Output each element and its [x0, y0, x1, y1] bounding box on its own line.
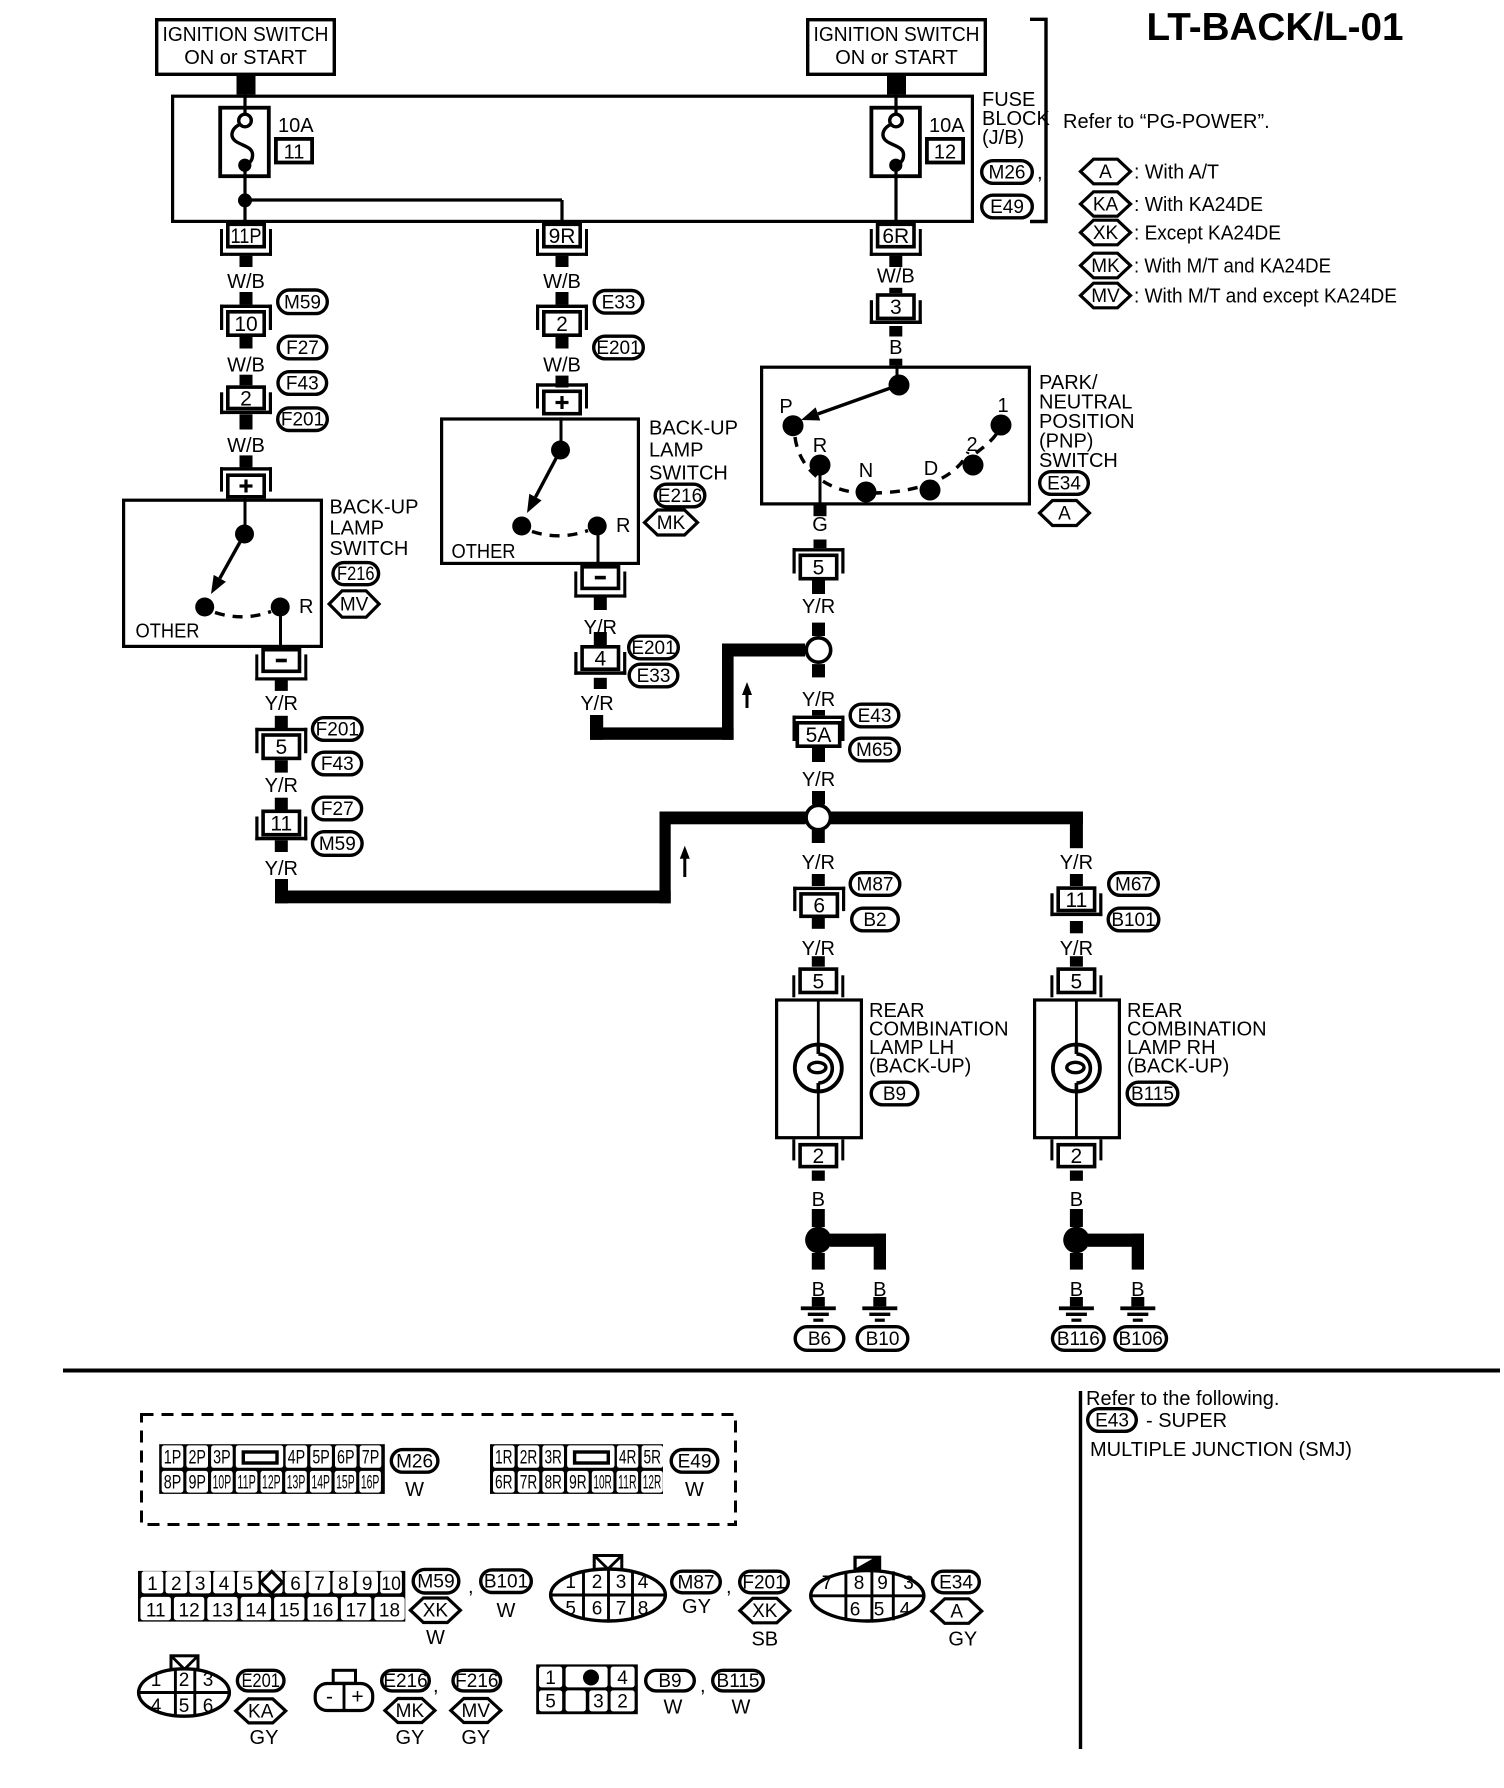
svg-text:E201: E201 — [631, 638, 675, 659]
svg-text:BACK-UP: BACK-UP — [330, 497, 419, 519]
svg-text:2P: 2P — [188, 1448, 206, 1469]
svg-text:M59: M59 — [319, 834, 356, 855]
svg-text:6P: 6P — [337, 1448, 355, 1469]
svg-text:11: 11 — [1065, 889, 1087, 912]
svg-text:B116: B116 — [1057, 1329, 1100, 1350]
svg-text:W/B: W/B — [227, 435, 265, 457]
svg-text:E216: E216 — [383, 1671, 427, 1692]
svg-text:SB: SB — [751, 1629, 778, 1651]
svg-text:E201: E201 — [241, 1671, 280, 1692]
svg-text:7: 7 — [822, 1573, 833, 1594]
svg-text:Y/R: Y/R — [802, 769, 835, 791]
svg-text:4: 4 — [617, 1668, 628, 1689]
svg-text:8: 8 — [854, 1573, 865, 1594]
svg-text:E49: E49 — [678, 1451, 712, 1472]
svg-text:F27: F27 — [286, 338, 319, 359]
svg-text:Refer to “PG-POWER”.: Refer to “PG-POWER”. — [1063, 111, 1270, 133]
svg-text:9P: 9P — [188, 1472, 206, 1493]
svg-text:14P: 14P — [311, 1472, 330, 1493]
svg-text:+: + — [351, 1686, 363, 1709]
svg-text:F43: F43 — [321, 754, 354, 775]
svg-text:E43: E43 — [1095, 1411, 1129, 1432]
svg-text:SWITCH: SWITCH — [1039, 450, 1118, 472]
svg-text:Y/R: Y/R — [265, 693, 298, 715]
svg-text:W: W — [497, 1600, 516, 1622]
svg-text:13: 13 — [212, 1600, 233, 1621]
svg-text:5: 5 — [275, 736, 287, 759]
svg-text:5: 5 — [1071, 970, 1083, 993]
svg-text:16: 16 — [312, 1600, 333, 1621]
svg-text:2: 2 — [179, 1670, 190, 1691]
svg-text:10A: 10A — [929, 115, 965, 137]
svg-text:4: 4 — [219, 1574, 230, 1595]
svg-text:4: 4 — [151, 1696, 162, 1717]
svg-text:5R: 5R — [644, 1448, 662, 1469]
svg-text:3: 3 — [616, 1572, 627, 1593]
svg-text:W: W — [426, 1627, 445, 1649]
svg-text:4: 4 — [900, 1599, 911, 1620]
svg-text:17: 17 — [346, 1600, 367, 1621]
svg-text:A: A — [1058, 504, 1071, 525]
svg-text:Y/R: Y/R — [802, 689, 835, 711]
svg-text:F216: F216 — [337, 564, 375, 585]
svg-text:E33: E33 — [637, 666, 671, 687]
svg-text:10R: 10R — [593, 1472, 612, 1493]
svg-text:B: B — [812, 1189, 825, 1211]
svg-text:MK: MK — [657, 513, 686, 534]
svg-text:3P: 3P — [213, 1448, 231, 1469]
svg-text:: With KA24DE: : With KA24DE — [1134, 194, 1263, 216]
svg-text:GY: GY — [250, 1727, 279, 1749]
svg-text:W/B: W/B — [543, 355, 581, 377]
svg-text:E43: E43 — [858, 706, 892, 727]
svg-text:11P: 11P — [237, 1472, 256, 1493]
svg-text:9R: 9R — [569, 1472, 587, 1493]
svg-text:B115: B115 — [1131, 1084, 1174, 1105]
svg-text:: With M/T and except KA24DE: : With M/T and except KA24DE — [1134, 286, 1397, 308]
svg-text:3: 3 — [903, 1573, 914, 1594]
svg-text:MULTIPLE JUNCTION (SMJ): MULTIPLE JUNCTION (SMJ) — [1090, 1439, 1352, 1461]
svg-text:7: 7 — [616, 1599, 627, 1620]
svg-text:11: 11 — [146, 1600, 166, 1621]
svg-text:,: , — [700, 1675, 706, 1697]
svg-text:G: G — [812, 514, 828, 536]
svg-text:6R: 6R — [882, 225, 909, 248]
svg-text:11: 11 — [284, 142, 305, 164]
svg-text:4: 4 — [594, 648, 606, 671]
svg-text:5: 5 — [545, 1692, 556, 1713]
svg-text:12R: 12R — [643, 1472, 662, 1493]
svg-text:3: 3 — [890, 296, 902, 319]
svg-text:10P: 10P — [213, 1472, 232, 1493]
svg-text:ON or START: ON or START — [835, 47, 958, 69]
svg-text:W: W — [685, 1479, 704, 1501]
svg-text:W: W — [732, 1697, 751, 1719]
svg-text:B101: B101 — [1111, 910, 1155, 931]
svg-text:1: 1 — [565, 1572, 576, 1593]
svg-text:P: P — [779, 396, 792, 418]
svg-text:B9: B9 — [883, 1084, 906, 1105]
svg-text:F216: F216 — [455, 1671, 498, 1692]
svg-text:M59: M59 — [284, 292, 321, 313]
svg-text:: With A/T: : With A/T — [1134, 162, 1219, 184]
svg-text:9R: 9R — [549, 225, 576, 248]
svg-text:9: 9 — [362, 1574, 373, 1595]
svg-text:R: R — [299, 596, 313, 618]
svg-text:18: 18 — [379, 1600, 400, 1621]
svg-text:15: 15 — [279, 1600, 300, 1621]
svg-text:5: 5 — [243, 1574, 254, 1595]
svg-text:1P: 1P — [164, 1448, 182, 1469]
svg-text:7P: 7P — [362, 1448, 380, 1469]
svg-text:15P: 15P — [336, 1472, 355, 1493]
svg-text:5: 5 — [813, 557, 825, 580]
svg-text:Y/R: Y/R — [265, 775, 298, 797]
svg-text:16P: 16P — [361, 1472, 380, 1493]
svg-text:A: A — [950, 1602, 963, 1623]
svg-text:W/B: W/B — [227, 355, 265, 377]
svg-text:2: 2 — [617, 1692, 628, 1713]
svg-text:,: , — [433, 1675, 439, 1697]
svg-text:7: 7 — [314, 1574, 325, 1595]
svg-text:10A: 10A — [278, 115, 314, 137]
svg-text:D: D — [924, 458, 938, 480]
svg-text:F201: F201 — [281, 410, 324, 431]
svg-text:Y/R: Y/R — [802, 596, 835, 618]
svg-text:Y/R: Y/R — [580, 693, 613, 715]
svg-text:,: , — [468, 1576, 474, 1598]
svg-text:5P: 5P — [312, 1448, 330, 1469]
svg-text:12P: 12P — [262, 1472, 281, 1493]
svg-text:6: 6 — [813, 895, 825, 918]
svg-text:B6: B6 — [808, 1329, 831, 1350]
svg-text:5: 5 — [874, 1599, 885, 1620]
svg-text:B106: B106 — [1119, 1329, 1163, 1350]
svg-text:ON or START: ON or START — [184, 47, 307, 69]
svg-text:F43: F43 — [286, 374, 319, 395]
svg-text:8: 8 — [638, 1599, 649, 1620]
svg-text:SWITCH: SWITCH — [649, 463, 728, 485]
svg-text:(BACK-UP): (BACK-UP) — [1127, 1056, 1229, 1078]
svg-text:SWITCH: SWITCH — [330, 538, 409, 560]
svg-text:3R: 3R — [544, 1448, 562, 1469]
svg-text:1: 1 — [151, 1670, 162, 1691]
svg-text:IGNITION SWITCH: IGNITION SWITCH — [814, 24, 980, 46]
svg-text:8P: 8P — [164, 1472, 182, 1493]
svg-text:W: W — [405, 1479, 424, 1501]
svg-text:: Except KA24DE: : Except KA24DE — [1134, 223, 1281, 245]
svg-text:2: 2 — [592, 1572, 603, 1593]
svg-text:2R: 2R — [520, 1448, 538, 1469]
svg-text:B9: B9 — [658, 1671, 681, 1692]
svg-text:2: 2 — [812, 1145, 824, 1168]
svg-text:XK: XK — [423, 1601, 449, 1622]
svg-text:4: 4 — [638, 1572, 649, 1593]
svg-text:2: 2 — [966, 434, 977, 456]
svg-text:4R: 4R — [619, 1448, 637, 1469]
svg-text:8R: 8R — [544, 1472, 562, 1493]
svg-text:GY: GY — [682, 1596, 711, 1618]
svg-text:B: B — [889, 337, 902, 359]
svg-text:3: 3 — [195, 1574, 206, 1595]
svg-text:W/B: W/B — [543, 271, 581, 293]
svg-text:5: 5 — [812, 970, 824, 993]
svg-text:GY: GY — [395, 1727, 424, 1749]
svg-text:B101: B101 — [484, 1572, 528, 1593]
svg-text:N: N — [859, 460, 873, 482]
svg-text:1R: 1R — [495, 1448, 513, 1469]
svg-text:B115: B115 — [717, 1671, 760, 1692]
svg-text:10: 10 — [234, 313, 257, 336]
svg-text:W: W — [664, 1697, 683, 1719]
svg-text:12: 12 — [934, 142, 956, 164]
svg-text:7R: 7R — [520, 1472, 538, 1493]
svg-text:6: 6 — [850, 1599, 861, 1620]
svg-text:LAMP: LAMP — [649, 440, 703, 462]
svg-text:W/B: W/B — [227, 271, 265, 293]
svg-text:A: A — [1099, 162, 1112, 183]
svg-text:KA: KA — [248, 1701, 274, 1722]
svg-text:3: 3 — [203, 1670, 214, 1691]
svg-text:B10: B10 — [866, 1329, 900, 1350]
svg-text:M67: M67 — [1115, 875, 1152, 896]
svg-text:LT-BACK/L-01: LT-BACK/L-01 — [1147, 6, 1404, 49]
svg-text:1: 1 — [147, 1574, 158, 1595]
svg-text:1: 1 — [997, 395, 1008, 417]
svg-text:6R: 6R — [495, 1472, 513, 1493]
svg-text:M65: M65 — [856, 740, 893, 761]
svg-text:M59: M59 — [417, 1572, 455, 1593]
svg-text:XK: XK — [1093, 223, 1119, 244]
svg-text:R: R — [616, 515, 630, 537]
svg-text:KA: KA — [1093, 195, 1119, 216]
svg-text:F27: F27 — [321, 799, 354, 820]
svg-text:E201: E201 — [596, 338, 640, 359]
svg-text:B2: B2 — [863, 910, 886, 931]
svg-text:E34: E34 — [1047, 474, 1081, 495]
svg-text:M87: M87 — [678, 1573, 715, 1594]
svg-text:Y/R: Y/R — [802, 852, 835, 874]
svg-text:E33: E33 — [602, 292, 636, 313]
svg-text:M87: M87 — [857, 875, 894, 896]
svg-text:OTHER: OTHER — [452, 541, 516, 563]
svg-text:9: 9 — [877, 1573, 888, 1594]
svg-text:Y/R: Y/R — [265, 858, 298, 880]
svg-text:4P: 4P — [288, 1448, 306, 1469]
svg-text:XK: XK — [752, 1601, 778, 1622]
svg-text:6: 6 — [290, 1574, 301, 1595]
svg-text:5: 5 — [565, 1599, 576, 1620]
svg-text:10: 10 — [381, 1574, 401, 1595]
svg-text:GY: GY — [948, 1629, 977, 1651]
svg-text:MV: MV — [1091, 286, 1120, 307]
svg-text:B: B — [1070, 1189, 1083, 1211]
svg-text:E49: E49 — [990, 197, 1024, 218]
svg-text:LAMP: LAMP — [330, 517, 384, 539]
svg-text:MK: MK — [1091, 256, 1120, 277]
svg-text:Y/R: Y/R — [1060, 852, 1093, 874]
svg-text:11: 11 — [270, 813, 292, 836]
svg-text:F201: F201 — [742, 1573, 785, 1594]
svg-text:MK: MK — [396, 1701, 425, 1722]
svg-text:: With M/T and KA24DE: : With M/T and KA24DE — [1134, 256, 1331, 278]
svg-text:E34: E34 — [939, 1573, 973, 1594]
svg-text:(BACK-UP): (BACK-UP) — [869, 1056, 971, 1078]
svg-text:11R: 11R — [618, 1472, 637, 1493]
svg-text:R: R — [813, 435, 827, 457]
svg-text:MV: MV — [462, 1701, 491, 1722]
svg-text:,: , — [1037, 162, 1043, 184]
svg-text:GY: GY — [461, 1727, 490, 1749]
svg-text:,: , — [726, 1576, 732, 1598]
svg-text:2: 2 — [1071, 1145, 1083, 1168]
svg-text:IGNITION SWITCH: IGNITION SWITCH — [163, 24, 329, 46]
svg-text:F201: F201 — [316, 720, 359, 741]
svg-text:W/B: W/B — [877, 266, 915, 288]
svg-text:12: 12 — [179, 1600, 200, 1621]
svg-text:6: 6 — [592, 1599, 603, 1620]
svg-text:(J/B): (J/B) — [982, 127, 1024, 149]
svg-text:13P: 13P — [287, 1472, 306, 1493]
svg-text:Refer to the following.: Refer to the following. — [1086, 1388, 1279, 1410]
svg-text:3: 3 — [593, 1692, 604, 1713]
svg-text:2: 2 — [240, 387, 252, 410]
svg-text:-: - — [326, 1686, 333, 1709]
svg-text:2: 2 — [556, 313, 568, 336]
svg-text:M26: M26 — [989, 163, 1026, 184]
svg-text:8: 8 — [338, 1574, 349, 1595]
svg-text:5: 5 — [179, 1696, 190, 1717]
svg-text:14: 14 — [245, 1600, 267, 1621]
svg-text:11P: 11P — [231, 225, 262, 248]
svg-text:BACK-UP: BACK-UP — [649, 418, 738, 440]
svg-text:5A: 5A — [806, 724, 832, 747]
svg-text:E216: E216 — [658, 486, 702, 507]
svg-text:1: 1 — [545, 1668, 556, 1689]
svg-text:MV: MV — [340, 595, 369, 616]
svg-text:- SUPER: - SUPER — [1146, 1410, 1227, 1432]
svg-text:OTHER: OTHER — [136, 620, 200, 642]
svg-text:2: 2 — [171, 1574, 182, 1595]
svg-text:M26: M26 — [396, 1451, 433, 1472]
svg-text:6: 6 — [203, 1696, 214, 1717]
